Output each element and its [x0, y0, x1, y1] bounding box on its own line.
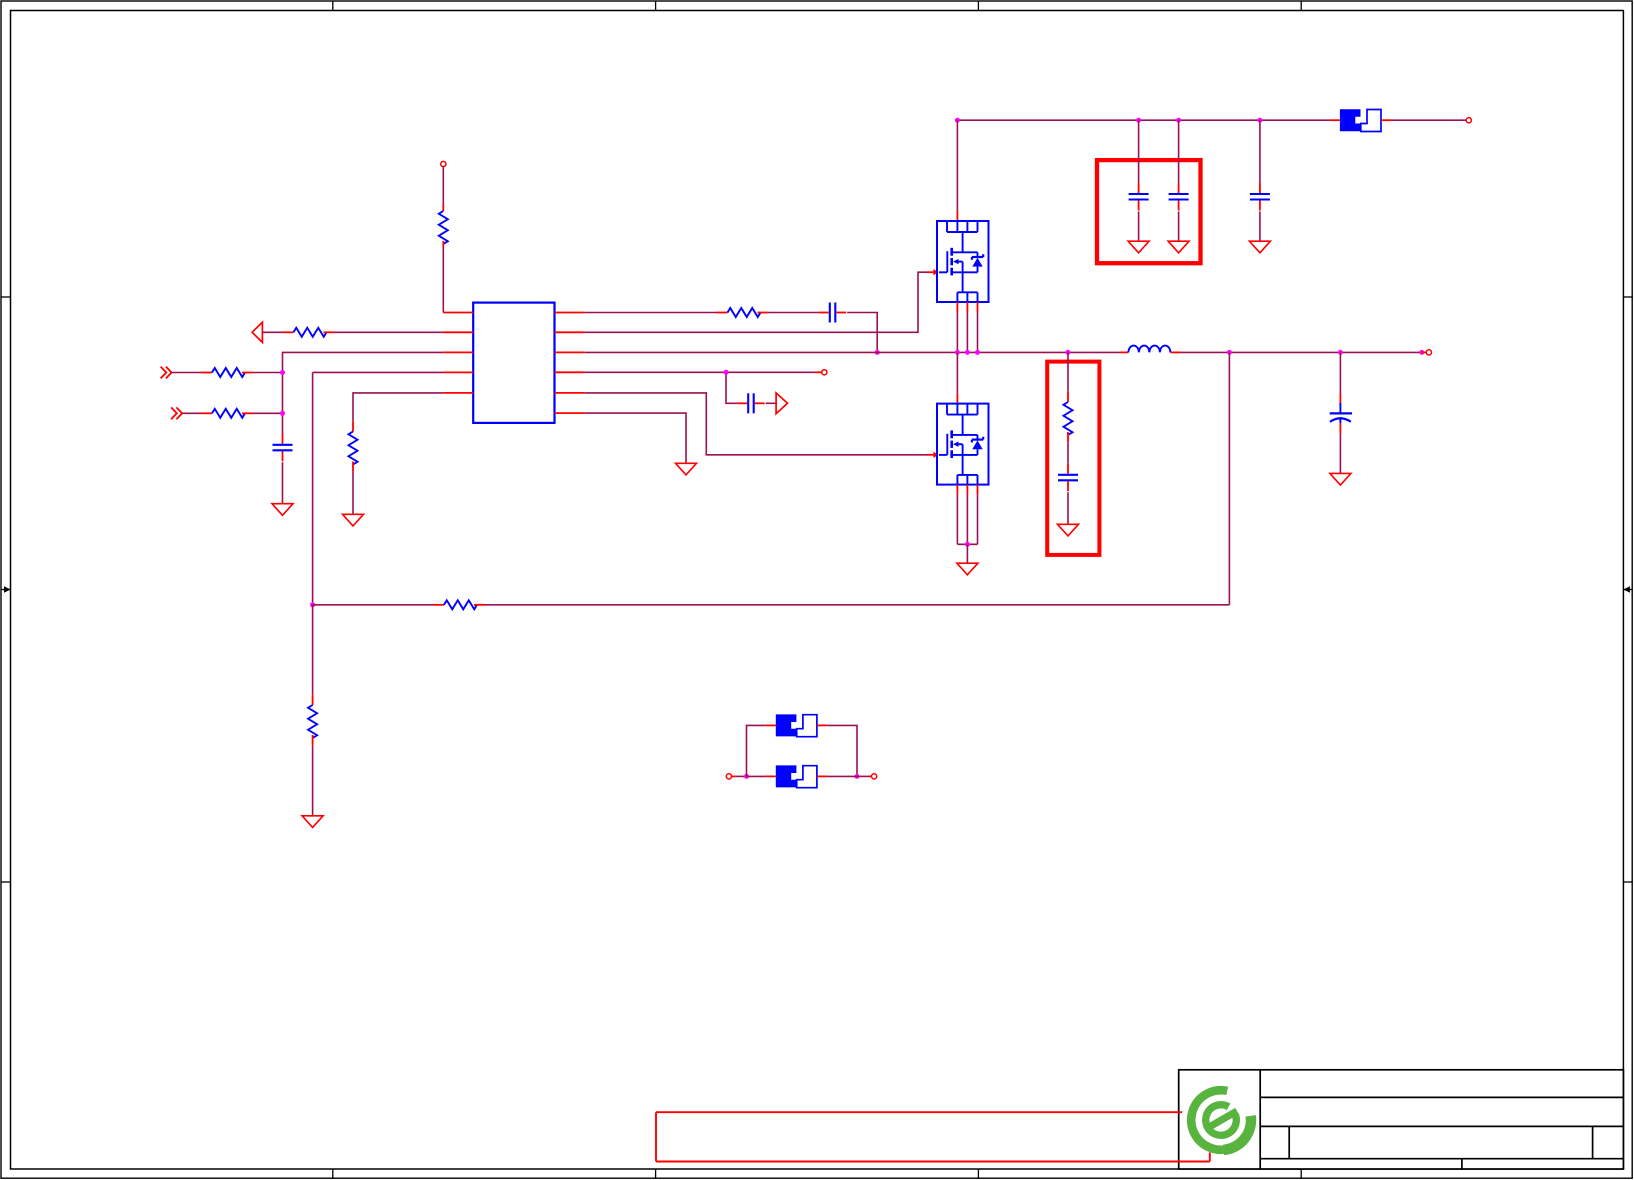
- gate arrow Q2: [927, 452, 938, 459]
- red stub J2 right: [817, 724, 827, 726]
- wire column to R5: [312, 605, 314, 695]
- wire IC LG pin to Q2 gate: [585, 393, 928, 455]
- input chevron port IN2: [171, 407, 182, 419]
- wire R1 to IC pin EN: [442, 247, 444, 313]
- ground below C7: [1058, 524, 1079, 536]
- junction VIN cap C4: [1136, 118, 1141, 123]
- jumper/fuse F1: [1340, 109, 1381, 131]
- junction output cap: [1338, 350, 1343, 355]
- wires Q2 source pins to bar: [957, 485, 977, 545]
- ground below R5: [302, 816, 323, 828]
- resistor R3 (IN1): [201, 368, 253, 377]
- wire R6 to ground: [352, 472, 354, 515]
- transistor Q1 (high side MOSFET): [937, 221, 989, 302]
- junction boot to SW: [875, 350, 880, 355]
- resistor R8 (snubber): [1064, 392, 1073, 442]
- jumper J2: [776, 714, 817, 736]
- capacitor C8 (polarized output): [1330, 393, 1352, 433]
- wire C1 to ground: [282, 462, 284, 504]
- wire R4 to junction: [253, 412, 283, 414]
- red stub J2 left: [766, 724, 776, 726]
- resistor R4 (IN2): [201, 409, 253, 418]
- resistor R9 (bottom rail): [433, 600, 485, 609]
- logo (green emblem): [1191, 1090, 1249, 1150]
- junction jumpers right: [855, 774, 860, 779]
- red stub left of fuse: [1330, 119, 1340, 121]
- junction SW Q1s1: [955, 350, 960, 355]
- highlight box snubber: [1047, 362, 1099, 555]
- wires Q1 source pins to SW: [957, 302, 977, 352]
- junction IN2 column: [280, 411, 285, 416]
- wire VIN to Q1 drain: [956, 120, 958, 211]
- ground below C4: [1128, 241, 1149, 253]
- wire VIN to C5: [1178, 120, 1180, 183]
- wire IN2 to R4: [182, 412, 201, 414]
- red stub right of fuse: [1381, 119, 1391, 121]
- wire J2 to right riser: [827, 725, 857, 776]
- junction SW Q1s2: [965, 350, 970, 355]
- wire SW rail (IC to inductor): [585, 351, 1121, 353]
- wire EN terminal to R1: [442, 167, 444, 205]
- wire bottom rail right: [485, 604, 1229, 606]
- border center arrow right: [1623, 586, 1633, 592]
- port arrow (points right): [776, 393, 787, 414]
- ground below R6: [343, 514, 364, 526]
- wire C7 to ground: [1067, 492, 1069, 524]
- wire SW to R8: [1067, 352, 1069, 391]
- wire VIN to C4: [1138, 120, 1140, 183]
- resistor R7 (boot): [717, 308, 769, 317]
- wire IC BOOT pin to R7: [585, 312, 717, 314]
- highlight box input capacitors: [1097, 160, 1201, 263]
- wire VIN rail: [957, 119, 1330, 121]
- ground below C5: [1168, 241, 1189, 253]
- wire SW to Q2 drain: [956, 352, 958, 403]
- junction SW snubber: [1066, 350, 1071, 355]
- IC U1 body: [473, 303, 554, 423]
- terminal jumper right: [872, 774, 877, 779]
- input chevron port IN1: [161, 367, 172, 379]
- junction VIN cap C5: [1176, 118, 1181, 123]
- red stub J3 right: [817, 775, 827, 777]
- wire J3 to junction: [827, 775, 857, 777]
- junction VCC branch: [724, 370, 729, 375]
- ground below IC right: [676, 463, 697, 475]
- resistor R5 (vertical): [308, 695, 317, 745]
- red annotation rectangle: [656, 1112, 1210, 1161]
- wire junction column to IC pin L3: [283, 352, 444, 434]
- red stub J3 left: [766, 775, 776, 777]
- title block: [1179, 1070, 1624, 1169]
- wire C6 to ground: [1259, 211, 1261, 241]
- red stub left jumpers: [732, 775, 736, 777]
- wire FB port to R2: [262, 331, 282, 333]
- wire to jumper junction: [736, 775, 747, 777]
- inductor L1: [1120, 346, 1180, 353]
- wire R2 to IC pin FB: [335, 331, 444, 333]
- wire C3 to port: [766, 402, 777, 404]
- capacitor C6 (input): [1250, 183, 1270, 211]
- wire C4 to ground: [1138, 211, 1140, 241]
- terminal EN: [441, 161, 446, 166]
- resistor R1 (vertical, EN pullup): [439, 205, 448, 248]
- red stub at VOUT terminal: [1422, 351, 1426, 353]
- capacitor C3: [737, 393, 765, 413]
- wire bottom rail left: [313, 604, 433, 606]
- ground below Q2: [957, 563, 978, 575]
- terminal VIN: [1466, 118, 1471, 123]
- wire R3 to junction: [253, 372, 283, 374]
- junction SW Q1s3: [975, 350, 980, 355]
- wire junction to right terminal: [857, 775, 869, 777]
- wire fuse to VIN terminal: [1392, 119, 1467, 121]
- red stub Q1 drain: [956, 211, 958, 221]
- ground below C8: [1330, 473, 1351, 485]
- gate arrow Q1: [927, 269, 938, 276]
- capacitor C5 (input): [1169, 183, 1189, 211]
- junction output sense: [1227, 350, 1232, 355]
- junction jumpers left: [744, 774, 749, 779]
- port arrow FB (points left): [252, 322, 262, 342]
- capacitor C2 (boot): [819, 303, 847, 323]
- IC U1 left pin stubs: [443, 313, 473, 393]
- ground below C1: [272, 504, 293, 516]
- terminal jumper left: [726, 774, 731, 779]
- junction VIN cap C6: [1257, 118, 1262, 123]
- junction VIN rail corner: [955, 118, 960, 123]
- wire C8 to ground: [1339, 433, 1341, 473]
- wire output sense down: [1228, 352, 1230, 604]
- junction bottom rail: [310, 602, 315, 607]
- jumper J3: [776, 765, 817, 787]
- capacitor C7 (snubber): [1058, 464, 1078, 492]
- wire R5 to ground: [312, 745, 314, 816]
- red stub right jumpers: [869, 775, 872, 777]
- wire L4 column down: [312, 372, 314, 604]
- resistor R2 (FB): [283, 328, 335, 337]
- wire IC pin L4 left: [313, 371, 444, 373]
- wire IN1 to R3: [172, 372, 201, 374]
- junction VOUT terminal: [1419, 350, 1424, 355]
- junction Q2 source bar: [965, 542, 970, 547]
- transistor Q2 (low side MOSFET): [937, 404, 989, 485]
- wire R7 to C2: [769, 312, 819, 314]
- wire C5 to ground: [1178, 211, 1180, 241]
- junction IN1 column: [280, 370, 285, 375]
- wire VIN to C6: [1259, 120, 1261, 183]
- ground below C6: [1249, 241, 1270, 253]
- border center arrow left: [1, 586, 11, 592]
- terminal VOUT: [1426, 350, 1431, 355]
- capacitor C4 (input): [1129, 183, 1149, 211]
- wire Q2 source to ground: [966, 544, 968, 563]
- wire branch down to C3: [726, 372, 737, 403]
- wire IC pin R4 to terminal: [585, 371, 815, 373]
- wire IC pin L5 to R6 column: [353, 393, 443, 421]
- red stub at VCC terminal: [815, 371, 822, 373]
- capacitor C1 (input filter): [273, 434, 293, 462]
- wire left riser to J2: [747, 725, 766, 776]
- wire R8 to C7: [1067, 442, 1069, 464]
- wire C2 to SW rail: [847, 313, 877, 353]
- wire IC HG pin to Q1 gate: [585, 272, 928, 332]
- wire SW rail (inductor to output): [1180, 351, 1421, 353]
- wire junction to J3: [747, 775, 766, 777]
- terminal VCC: [822, 370, 827, 375]
- wire IC pin R6 down: [585, 413, 686, 463]
- wire output to C8: [1339, 352, 1341, 393]
- resistor R6 (vertical): [349, 421, 358, 471]
- IC U1 right pin stubs: [555, 313, 585, 414]
